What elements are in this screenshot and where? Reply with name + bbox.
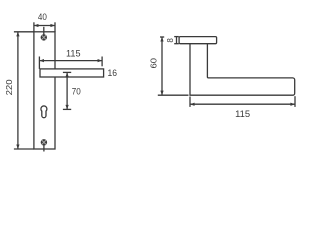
svg-text:115: 115 bbox=[66, 48, 81, 58]
handle lever bar (front view) bbox=[40, 69, 104, 77]
svg-text:40: 40 bbox=[38, 12, 47, 22]
dim 60 extension bottom bbox=[158, 94, 189, 96]
top screw centerline bbox=[43, 27, 45, 36]
bottom screw bbox=[41, 139, 47, 145]
dim 115 (side) line bbox=[190, 103, 295, 105]
dim 220 extension top bbox=[14, 31, 34, 33]
dim 115 (side) extension left bbox=[189, 97, 191, 107]
dim 40 line bbox=[34, 25, 55, 27]
svg-text:220: 220 bbox=[5, 79, 14, 96]
keyhole bbox=[41, 106, 47, 118]
svg-text:8: 8 bbox=[166, 38, 175, 43]
dim 115 (front) line bbox=[39, 60, 102, 62]
dim 115 (front) extension right bbox=[101, 57, 103, 67]
svg-text:70: 70 bbox=[72, 87, 81, 97]
dim 8 bottom bar bbox=[174, 43, 179, 45]
svg-text:115: 115 bbox=[235, 109, 250, 119]
dim 8 top bar bbox=[174, 36, 179, 38]
side view lever L-shape bbox=[190, 44, 295, 95]
dim 40 extension right bbox=[54, 22, 56, 32]
dim 40 extension left bbox=[33, 22, 35, 32]
dim 70 line bbox=[66, 72, 68, 109]
svg-text:60: 60 bbox=[149, 57, 158, 68]
dim 115 (front) extension left bbox=[38, 57, 40, 69]
dim 8 line bbox=[176, 37, 178, 44]
backplate outline (front view) bbox=[34, 32, 55, 149]
dim 60 top bar bbox=[160, 36, 164, 38]
dim 60 line bbox=[161, 37, 163, 95]
svg-text:16: 16 bbox=[108, 68, 118, 78]
dim 220 extension bottom bbox=[14, 148, 34, 150]
bottom screw centerline bbox=[43, 146, 45, 152]
dim 220 line bbox=[17, 32, 19, 149]
dim 115 (side) extension right bbox=[294, 96, 296, 107]
top screw bbox=[41, 34, 47, 40]
dim 70 top bar bbox=[63, 71, 71, 73]
dim 70 bottom bar bbox=[63, 108, 71, 110]
side view rose cap bbox=[179, 37, 217, 44]
